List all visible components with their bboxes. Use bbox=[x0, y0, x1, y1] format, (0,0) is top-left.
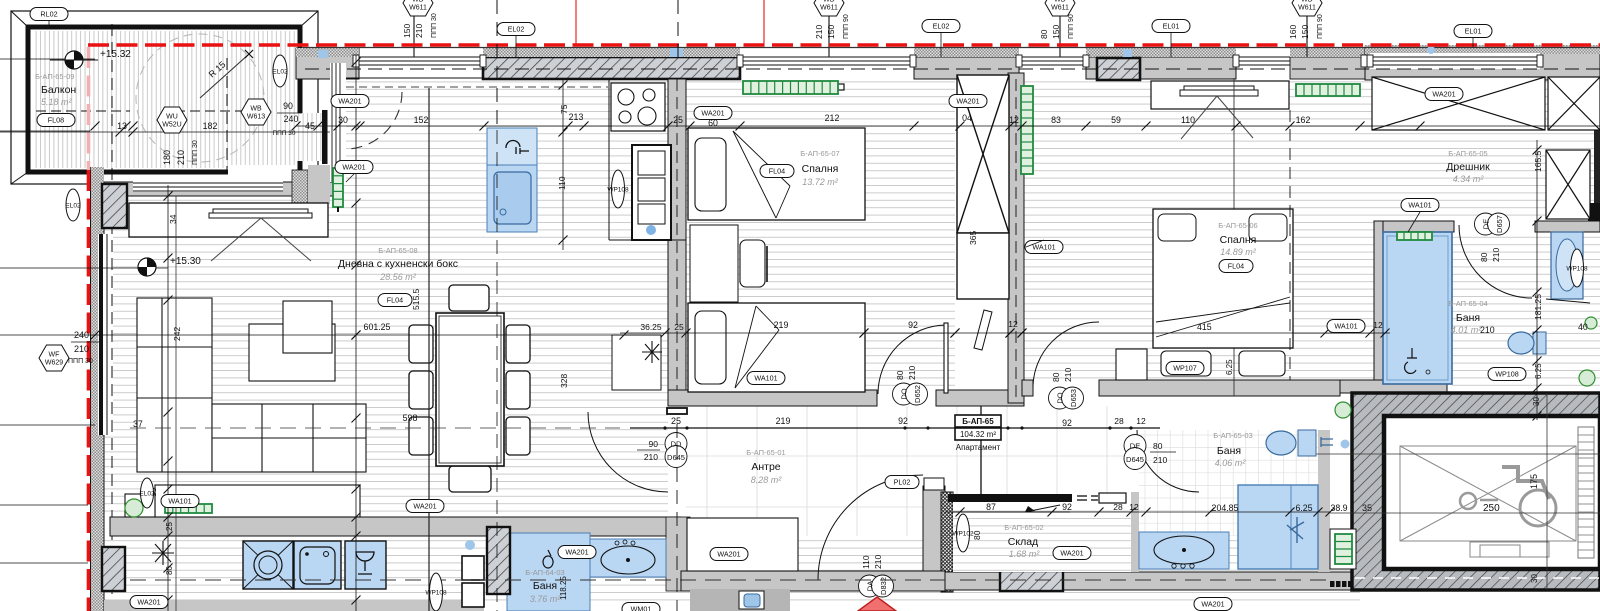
balcony niche stripes extension bbox=[296, 113, 323, 161]
hatched pier at bath1 bbox=[487, 527, 510, 594]
svg-text:8.28 m²: 8.28 m² bbox=[751, 475, 783, 485]
svg-text:Б-АП-65-08: Б-АП-65-08 bbox=[378, 246, 417, 255]
svg-text:Б-АП-65-04: Б-АП-65-04 bbox=[1448, 299, 1487, 308]
svg-text:Балкон: Балкон bbox=[41, 84, 76, 96]
radiator balcony door bbox=[333, 168, 343, 207]
svg-text:160: 160 bbox=[1288, 25, 1298, 39]
closet X wardrobes bbox=[1372, 77, 1600, 219]
label WA201 bottomleft bbox=[130, 596, 168, 609]
svg-text:118.25: 118.25 bbox=[559, 576, 568, 600]
kitchen niche door dashed arc bbox=[345, 92, 402, 149]
label WA201 b bbox=[694, 107, 732, 120]
top wall window 1 bbox=[356, 57, 484, 65]
svg-text:212: 212 bbox=[825, 113, 840, 123]
window band below balcony bbox=[133, 181, 283, 192]
right edge black column bbox=[1594, 80, 1600, 230]
svg-text:250: 250 bbox=[1483, 503, 1500, 514]
hatched rect bottom storage bbox=[1000, 571, 1063, 591]
balcony outer frame bbox=[11, 11, 318, 184]
wall band below balcony bbox=[104, 182, 340, 196]
radiator corridor bbox=[1021, 86, 1033, 174]
label WA201 a bbox=[331, 95, 369, 108]
svg-text:WP108: WP108 bbox=[425, 589, 447, 596]
svg-text:210: 210 bbox=[1480, 325, 1495, 335]
elevator section lines bbox=[1300, 453, 1600, 455]
svg-text:12: 12 bbox=[1009, 115, 1019, 125]
label WA201 d bbox=[1425, 88, 1463, 101]
svg-text:210: 210 bbox=[176, 150, 186, 165]
living vertical dim line bbox=[355, 55, 357, 611]
svg-text:12: 12 bbox=[1136, 416, 1146, 426]
label EL02 vertical bbox=[65, 189, 81, 221]
bedroom2 door arc bbox=[1033, 322, 1099, 388]
label WP102 vertical bbox=[952, 514, 974, 552]
kitchen sink unit bbox=[487, 128, 537, 165]
bedroom1 bottom wall bbox=[668, 390, 877, 406]
label PL02 bbox=[885, 476, 919, 489]
svg-text:75: 75 bbox=[559, 104, 569, 114]
svg-text:WD: WD bbox=[1301, 0, 1313, 4]
left edge extension lines bbox=[0, 58, 95, 60]
asterisk symbol living bbox=[152, 541, 174, 565]
svg-text:EL02: EL02 bbox=[65, 202, 81, 209]
svg-text:4.34 m²: 4.34 m² bbox=[1453, 174, 1485, 184]
light blue vents on wall bbox=[318, 50, 328, 58]
radiator bedroom2 window bbox=[1296, 84, 1360, 96]
svg-text:W629: W629 bbox=[45, 360, 63, 367]
svg-text:182: 182 bbox=[203, 121, 218, 131]
wheelchair symbol bbox=[1460, 467, 1556, 526]
label WA201 balc2 bbox=[335, 161, 373, 174]
toilet bottom center bbox=[739, 591, 764, 609]
top wall right segment bbox=[1290, 57, 1365, 79]
red axis vertical lines bbox=[575, 0, 577, 45]
svg-text:35: 35 bbox=[1362, 503, 1372, 513]
svg-text:83: 83 bbox=[1051, 115, 1061, 125]
svg-text:150: 150 bbox=[1051, 25, 1061, 39]
svg-text:25: 25 bbox=[674, 322, 684, 332]
entry vertical wall bbox=[923, 486, 945, 572]
hatched pier bbox=[1097, 58, 1140, 80]
tiny black squares bottom right bbox=[1330, 581, 1335, 587]
svg-text:92: 92 bbox=[908, 320, 918, 330]
red dashed boundary vertical bbox=[87, 47, 91, 170]
bedroom1 door arc bbox=[878, 325, 946, 394]
svg-text:210: 210 bbox=[1153, 455, 1167, 465]
label WA101 corridor bbox=[1025, 241, 1063, 254]
label WA201 living2 bbox=[406, 500, 444, 513]
door symbol entry bbox=[859, 575, 894, 597]
label EL01 right bbox=[1454, 25, 1492, 38]
lintel hatched beam over kitchen bbox=[483, 57, 740, 79]
svg-text:328: 328 bbox=[559, 374, 569, 388]
bath2 left wall bbox=[1131, 492, 1139, 572]
svg-text:150: 150 bbox=[402, 24, 412, 38]
right wing floor hatch bbox=[1024, 79, 1600, 380]
door symbol living bbox=[665, 433, 687, 468]
svg-text:WA101: WA101 bbox=[754, 374, 777, 383]
svg-text:Б-АП-65-05: Б-АП-65-05 bbox=[1448, 149, 1487, 158]
svg-text:598: 598 bbox=[403, 413, 418, 423]
svg-text:WA201: WA201 bbox=[1432, 90, 1455, 99]
svg-text:210: 210 bbox=[414, 24, 424, 38]
svg-text:92: 92 bbox=[898, 416, 908, 426]
top wall window 2 bbox=[740, 57, 914, 65]
hex WU W52U bbox=[157, 107, 187, 133]
svg-text:6.25: 6.25 bbox=[1295, 503, 1312, 513]
label FL08 bbox=[37, 114, 75, 127]
hall closet bbox=[687, 518, 798, 571]
svg-text:Склад: Склад bbox=[1008, 536, 1038, 548]
hex top2 bbox=[814, 0, 844, 16]
laundry unit with X (bottom-left) bbox=[243, 541, 293, 589]
svg-text:25: 25 bbox=[673, 115, 683, 125]
red dashed boundary horizontal bbox=[88, 43, 1600, 47]
wall axis dashed line bbox=[305, 68, 1600, 70]
leader lines for labels bbox=[1026, 240, 1044, 247]
label FL04 bedroom1 bbox=[760, 165, 794, 178]
svg-text:WA101: WA101 bbox=[168, 497, 191, 506]
svg-text:Спалня: Спалня bbox=[1220, 234, 1257, 246]
svg-text:240: 240 bbox=[74, 330, 89, 340]
svg-text:D645: D645 bbox=[667, 453, 685, 462]
svg-text:D653: D653 bbox=[1069, 389, 1078, 407]
svg-text:14.89 m²: 14.89 m² bbox=[1220, 247, 1257, 257]
section line through apartment box bbox=[980, 406, 982, 494]
kitchen vent shaft bbox=[612, 335, 661, 390]
bedroom1 bed 2 bbox=[688, 303, 865, 392]
svg-text:515.5: 515.5 bbox=[411, 288, 421, 310]
entry door sill bbox=[924, 478, 944, 490]
label EL02 vertical 2 bbox=[139, 478, 155, 508]
svg-text:04: 04 bbox=[962, 113, 972, 123]
construction line x=429 bbox=[428, 88, 430, 611]
coffee tables bbox=[249, 324, 335, 381]
svg-text:219: 219 bbox=[774, 320, 789, 330]
survey point +15.32 bbox=[50, 51, 98, 69]
svg-text:36.25: 36.25 bbox=[640, 322, 662, 332]
bath2 door arc bbox=[1137, 430, 1199, 492]
left vertical dim line bbox=[167, 185, 169, 611]
label FL04 living bbox=[378, 294, 412, 307]
svg-text:80: 80 bbox=[1051, 372, 1061, 382]
svg-text:30: 30 bbox=[1532, 397, 1541, 406]
svg-text:242: 242 bbox=[172, 327, 182, 341]
svg-text:180: 180 bbox=[162, 150, 172, 165]
bath1 blue floor bbox=[507, 533, 590, 611]
svg-text:240: 240 bbox=[284, 114, 299, 124]
label EL02 balcony bbox=[272, 55, 288, 87]
left exterior wall (stippled) bbox=[91, 167, 104, 611]
main horizontal dim line bbox=[0, 131, 330, 133]
svg-text:FL04: FL04 bbox=[387, 296, 403, 305]
bottom wall C bbox=[945, 572, 1360, 590]
svg-text:DE: DE bbox=[1482, 219, 1491, 229]
svg-text:110: 110 bbox=[557, 176, 567, 190]
svg-text:Б-АП-65-06: Б-АП-65-06 bbox=[1218, 221, 1257, 230]
svg-text:12: 12 bbox=[1129, 502, 1139, 512]
svg-text:210: 210 bbox=[907, 366, 917, 380]
svg-text:150: 150 bbox=[826, 25, 836, 39]
svg-text:181.25: 181.25 bbox=[1533, 294, 1543, 320]
svg-text:EL02: EL02 bbox=[272, 68, 288, 75]
svg-text:165.5: 165.5 bbox=[1533, 150, 1543, 172]
svg-text:WP108: WP108 bbox=[1566, 265, 1588, 272]
elevator counterweight ladder bbox=[1578, 427, 1594, 558]
svg-text:Баня: Баня bbox=[1456, 312, 1480, 324]
radiator living bottom bbox=[165, 504, 212, 513]
fridge/oven column bbox=[632, 145, 671, 240]
mid vertical wall at bath bbox=[666, 517, 690, 591]
bath2 floor tile grid bbox=[1139, 430, 1318, 572]
svg-text:150: 150 bbox=[1300, 25, 1310, 39]
right vertical dim line bbox=[1536, 140, 1538, 420]
label EL01 bbox=[1152, 20, 1190, 33]
door symbol bedroom2 bbox=[1049, 387, 1084, 409]
svg-text:34: 34 bbox=[168, 214, 178, 224]
hatched block left below balcony bbox=[102, 184, 127, 228]
svg-text:EL02: EL02 bbox=[933, 22, 950, 31]
svg-text:38.9: 38.9 bbox=[1330, 503, 1347, 513]
svg-text:WB: WB bbox=[250, 106, 262, 113]
svg-text:1.68 m²: 1.68 m² bbox=[1009, 549, 1041, 559]
door symbol bedroom1 bbox=[893, 383, 928, 405]
label WA101 right bbox=[1327, 320, 1365, 333]
wardrobe with X bbox=[957, 75, 1009, 299]
svg-text:87: 87 bbox=[986, 502, 996, 512]
svg-text:110: 110 bbox=[1181, 115, 1195, 125]
bedroom2 shelf bbox=[1151, 81, 1289, 109]
construction line x=176 bbox=[175, 196, 177, 611]
bedroom1 desk+chair bbox=[690, 225, 738, 302]
svg-text:Б-АП-65-07: Б-АП-65-07 bbox=[800, 149, 839, 158]
balcony floor hatch bbox=[33, 31, 296, 168]
svg-text:25: 25 bbox=[165, 522, 174, 531]
left wall window bbox=[98, 234, 113, 435]
svg-text:+15.30: +15.30 bbox=[170, 256, 201, 267]
label EL02 top bbox=[497, 23, 535, 36]
corridor vertical wall bbox=[1008, 73, 1024, 403]
svg-text:WA201: WA201 bbox=[956, 97, 979, 106]
svg-text:92: 92 bbox=[1062, 418, 1072, 428]
svg-text:Баня: Баня bbox=[533, 580, 557, 592]
hex WB W613 bbox=[241, 99, 271, 125]
hatched block left wall bottom bbox=[102, 547, 125, 591]
vertical window right of balcony bbox=[330, 63, 346, 182]
svg-text:W52U: W52U bbox=[162, 122, 181, 129]
svg-text:30: 30 bbox=[1530, 574, 1539, 583]
svg-text:D657: D657 bbox=[1495, 215, 1504, 233]
svg-text:92: 92 bbox=[1062, 502, 1072, 512]
hexagon leader lines bbox=[413, 10, 415, 57]
svg-text:W611: W611 bbox=[820, 5, 838, 12]
svg-text:DA: DA bbox=[866, 581, 875, 591]
svg-text:Б-АП-65-02: Б-АП-65-02 bbox=[1004, 523, 1043, 532]
bedroom1 floor hatch bbox=[686, 79, 955, 390]
svg-text:37: 37 bbox=[133, 419, 143, 429]
svg-text:D652: D652 bbox=[913, 385, 922, 403]
svg-text:W611: W611 bbox=[1051, 5, 1069, 12]
lower dim line bbox=[945, 511, 1330, 513]
svg-text:WM01: WM01 bbox=[631, 605, 652, 611]
radiator box bottom right bbox=[1330, 529, 1356, 569]
svg-text:210: 210 bbox=[1063, 368, 1073, 382]
svg-text:WP107: WP107 bbox=[1173, 364, 1197, 373]
svg-text:W611: W611 bbox=[1298, 5, 1316, 12]
hex top1 bbox=[403, 0, 433, 16]
svg-text:Б-АП-65-09: Б-АП-65-09 bbox=[35, 72, 74, 81]
elevator bench bbox=[1470, 542, 1549, 557]
washer unit bbox=[294, 541, 341, 589]
svg-text:28: 28 bbox=[1114, 416, 1124, 426]
label WP107 bbox=[1166, 362, 1204, 375]
label WP108 bath3 bbox=[1488, 368, 1526, 381]
shower head strip bbox=[1397, 232, 1432, 240]
svg-text:WA201: WA201 bbox=[1201, 600, 1224, 609]
mid horizontal dim line bbox=[0, 334, 640, 336]
svg-text:40: 40 bbox=[1578, 322, 1588, 332]
label WP108 kitchen bbox=[607, 170, 629, 208]
tv unit top bbox=[129, 203, 328, 237]
bath3 toilet bbox=[1508, 332, 1546, 354]
door symbol bath2 bbox=[1124, 435, 1146, 470]
svg-text:W613: W613 bbox=[247, 114, 265, 121]
bath1 sink counter bbox=[590, 539, 666, 577]
svg-text:RL02: RL02 bbox=[40, 10, 57, 19]
entry door arc bbox=[818, 475, 923, 580]
label WA201 storage bbox=[1053, 547, 1091, 560]
label WA101 closet bbox=[1401, 199, 1439, 212]
svg-text:ППП 30: ППП 30 bbox=[68, 358, 93, 365]
balcony R15 radius line bbox=[200, 54, 249, 98]
bath3 pedestal sink bbox=[1551, 232, 1583, 299]
storage room bbox=[953, 494, 1131, 572]
svg-text:ППП 30: ППП 30 bbox=[431, 13, 438, 38]
bath3 walls bbox=[1374, 221, 1454, 232]
svg-text:4.01 m²: 4.01 m² bbox=[1451, 325, 1483, 335]
svg-text:EL01: EL01 bbox=[1465, 27, 1482, 36]
label WP108 vertical bbox=[1566, 249, 1588, 287]
label WA201 hall bbox=[710, 548, 748, 561]
svg-text:210: 210 bbox=[814, 25, 824, 39]
red entry triangle bbox=[858, 597, 896, 611]
svg-text:12: 12 bbox=[1008, 319, 1018, 329]
bath2 shower bbox=[1238, 485, 1318, 569]
svg-text:219: 219 bbox=[776, 416, 791, 426]
svg-text:25: 25 bbox=[671, 416, 681, 426]
svg-text:EL01: EL01 bbox=[1163, 22, 1180, 31]
svg-text:5.18 m²: 5.18 m² bbox=[41, 97, 73, 107]
svg-text:Б-АП-65-01: Б-АП-65-01 bbox=[746, 448, 785, 457]
svg-text:210: 210 bbox=[873, 555, 883, 569]
label WM01 bottom bbox=[622, 603, 660, 611]
svg-text:WA201: WA201 bbox=[137, 598, 160, 607]
label FL04 bedroom2 bbox=[1219, 260, 1253, 273]
svg-text:6.25: 6.25 bbox=[1225, 359, 1234, 375]
svg-text:210: 210 bbox=[1491, 248, 1501, 262]
svg-text:210: 210 bbox=[74, 344, 89, 354]
stove bbox=[611, 83, 665, 131]
label WA201 c bbox=[949, 95, 987, 108]
living room floor hatch bbox=[104, 79, 668, 517]
svg-text:WD: WD bbox=[412, 0, 424, 4]
svg-text:FL04: FL04 bbox=[1228, 262, 1244, 271]
elevator inner room bbox=[1384, 416, 1600, 569]
svg-text:175: 175 bbox=[1529, 474, 1539, 489]
svg-text:601.25: 601.25 bbox=[364, 322, 391, 332]
bottom dashed line bbox=[130, 579, 945, 581]
svg-text:FL08: FL08 bbox=[48, 116, 64, 125]
svg-text:WP102: WP102 bbox=[952, 530, 974, 537]
svg-text:EL02: EL02 bbox=[508, 25, 525, 34]
svg-text:WA201: WA201 bbox=[413, 502, 436, 511]
bath3 shower bbox=[1383, 232, 1452, 384]
svg-text:WP108: WP108 bbox=[1495, 370, 1519, 379]
pier stipple block right of balcony bbox=[292, 170, 308, 203]
bath2 sink counter bbox=[1139, 532, 1229, 569]
svg-text:WA201: WA201 bbox=[342, 163, 365, 172]
svg-text:12: 12 bbox=[1373, 320, 1383, 330]
svg-text:ППП 30: ППП 30 bbox=[192, 140, 199, 165]
sofa bbox=[137, 298, 366, 472]
apartment summary box bbox=[955, 415, 1001, 427]
survey point +15.30 bbox=[138, 258, 156, 276]
svg-text:ППП 90: ППП 90 bbox=[843, 14, 850, 39]
bedroom1 bed 1 bbox=[688, 128, 865, 220]
svg-text:Апартамент: Апартамент bbox=[956, 443, 1001, 452]
bottom edge wall bbox=[104, 600, 484, 611]
storage crosshatch wall bbox=[941, 492, 953, 592]
bottom strip floor hatch bbox=[104, 536, 1360, 602]
svg-text:162: 162 bbox=[1296, 115, 1311, 125]
svg-text:WU: WU bbox=[166, 114, 178, 121]
svg-text:4.06 m²: 4.06 m² bbox=[1215, 458, 1247, 468]
svg-text:ППП 90: ППП 90 bbox=[1068, 14, 1075, 39]
balcony axis dashed lines bbox=[226, 58, 228, 170]
label EL02 top2 bbox=[922, 20, 960, 33]
svg-text:WA101: WA101 bbox=[1408, 201, 1431, 210]
svg-text:90: 90 bbox=[283, 101, 293, 111]
axis dashed vertical bedroom2/closet bbox=[1289, 110, 1291, 380]
hex top4 bbox=[1292, 0, 1322, 16]
svg-text:WD: WD bbox=[823, 0, 835, 4]
svg-text:WA101: WA101 bbox=[1334, 322, 1357, 331]
hex top3 bbox=[1045, 0, 1075, 16]
top wall segment 3 bbox=[914, 57, 1019, 79]
svg-text:80: 80 bbox=[165, 566, 174, 575]
door symbol bath3 bbox=[1475, 213, 1510, 235]
bottom wall A bbox=[110, 517, 681, 536]
top wall segment at balcony joint bbox=[296, 48, 359, 79]
hall floor tile grid bbox=[686, 406, 1131, 572]
radiator kitchen window bbox=[743, 81, 838, 94]
wall outer face edge line bbox=[303, 47, 1600, 49]
balcony wall bbox=[28, 27, 300, 172]
glass unit bbox=[345, 541, 386, 589]
label WP108 bath1 bbox=[425, 573, 447, 611]
bath2 right wall bbox=[1318, 430, 1330, 572]
svg-text:Б-АП-65: Б-АП-65 bbox=[962, 417, 994, 426]
svg-text:D645: D645 bbox=[1126, 455, 1144, 464]
radiator end cap bbox=[838, 84, 844, 90]
wall kitchen/bedroom1 separator bbox=[668, 79, 686, 406]
svg-text:WA101: WA101 bbox=[1032, 243, 1055, 252]
bath1 droplet bbox=[543, 550, 553, 568]
svg-text:Б-АП-64-03: Б-АП-64-03 bbox=[525, 568, 564, 577]
svg-text:FL04: FL04 bbox=[769, 167, 785, 176]
label WA201 bottom bbox=[1194, 598, 1232, 611]
bath2 toilet bbox=[1266, 430, 1316, 456]
